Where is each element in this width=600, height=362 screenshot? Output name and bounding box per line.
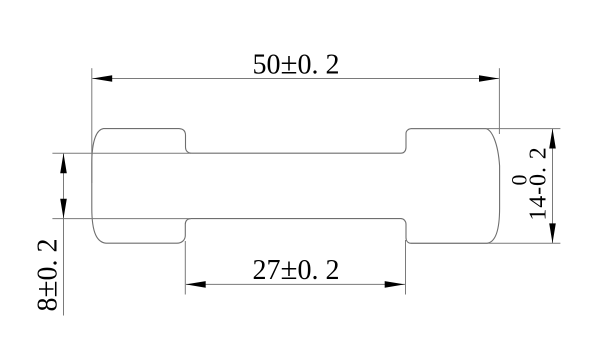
extension line left xyxy=(184,241,186,295)
svg-text:8±0. 2: 8±0. 2 xyxy=(29,238,64,311)
arrowhead up of 8 dim xyxy=(60,153,67,173)
arrowhead down of 8 dim xyxy=(60,199,67,219)
dimension line xyxy=(552,129,554,244)
dimension line xyxy=(186,283,405,285)
arrowhead left of 27 dim xyxy=(186,281,206,288)
arrowhead down of 14 dim xyxy=(549,223,556,243)
svg-text:0: 0 xyxy=(507,175,532,186)
dimension 27±0.2 (bottom boss width) xyxy=(185,240,405,295)
part outline (dog-bone extrusion profile) xyxy=(92,129,500,244)
dimension 50±0.2 (overall width, top) xyxy=(92,68,500,183)
dimension 8±0.2 (web thickness, left) xyxy=(52,153,191,315)
extension line top (through part) xyxy=(52,152,92,154)
extension line bottom (through part to slab) xyxy=(52,218,92,220)
dimension line with tail for text xyxy=(63,153,65,315)
extension line top xyxy=(412,128,560,130)
extension line bottom xyxy=(411,242,560,244)
arrowhead right of 27 dim xyxy=(385,281,405,288)
extension line left xyxy=(91,68,93,183)
arrowhead left of 50 dim xyxy=(92,75,112,82)
arrowhead right of 50 dim xyxy=(479,75,499,82)
dimension line xyxy=(92,78,499,80)
svg-text:27±0. 2: 27±0. 2 xyxy=(252,251,339,286)
extension line right xyxy=(498,68,500,134)
arrowhead up of 14 dim xyxy=(549,129,556,149)
svg-text:50±0. 2: 50±0. 2 xyxy=(252,46,339,81)
dimension 14 0/-0.2 (overall height, right) xyxy=(411,129,560,244)
extension line right xyxy=(405,240,407,295)
interior crossing lines of slab edges through left block xyxy=(92,152,191,154)
